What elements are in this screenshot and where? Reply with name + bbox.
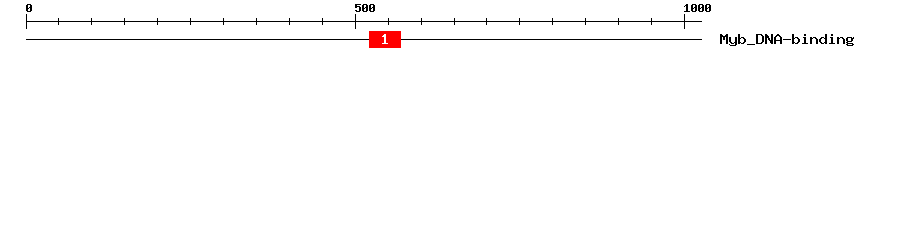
major tick 0 <box>26 14 27 29</box>
domain number 1 (white) <box>382 34 388 44</box>
major tick 1000 <box>684 14 685 29</box>
domain name label Myb_DNA-binding <box>720 34 854 46</box>
sequence backbone line <box>26 39 702 40</box>
ruler label 500 <box>355 4 375 12</box>
ruler axis line (0-1000 scale) <box>26 21 702 22</box>
ruler label 1000 <box>684 4 711 12</box>
domain box 1 (red) <box>369 31 401 48</box>
ruler label 0 <box>26 4 32 12</box>
major tick 500 <box>355 14 356 29</box>
minor ticks every 50 <box>58 18 652 25</box>
